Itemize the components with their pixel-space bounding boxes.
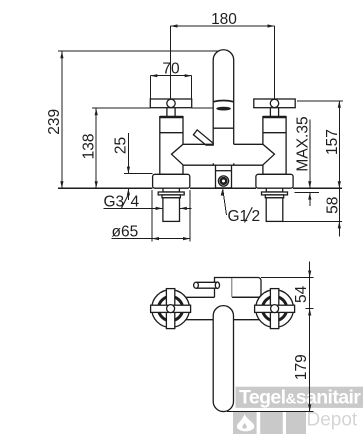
outlet fitting circles: [218, 176, 228, 186]
right handle hub circle: [270, 99, 278, 107]
arrow G1/2 leader: [221, 189, 224, 196]
svg-text:70: 70: [162, 61, 180, 78]
dim 25 extension line: [124, 173, 153, 175]
arrow MAX35 lower: [308, 193, 311, 200]
arrow 180 left: [171, 24, 178, 27]
MAX.35 dim line: [309, 120, 311, 207]
svg-text:239: 239: [46, 109, 63, 135]
dim 70 extension lines: [150, 76, 191, 99]
arrowheads: [60, 24, 341, 240]
body bar top line: [183, 143, 263, 145]
diverter lever: [193, 130, 213, 145]
G3/4 leader line: [104, 207, 192, 209]
diverter housing block B: [232, 278, 261, 298]
dim 180 extension lines: [171, 26, 275, 99]
dim 138 line: [95, 108, 97, 188]
right valve body: [263, 117, 286, 175]
arrow dia65 right: [183, 237, 190, 240]
lever joint ring: [215, 282, 219, 288]
left cross handle arms: [166, 289, 174, 329]
left valve body internal line: [160, 132, 183, 134]
left rosette dark ring: [159, 297, 183, 321]
dim 157 58 line: [338, 101, 340, 237]
arrow MAX35 upper: [308, 181, 311, 188]
spout ring arc: [214, 101, 234, 102]
G3/4 slash: [122, 193, 130, 208]
left handle center circle: [167, 305, 175, 313]
right rosette outer circle: [256, 290, 294, 328]
body bar hidden tube stubs: [213, 163, 234, 165]
left valve body: [160, 117, 183, 175]
arrow 180 right: [268, 24, 275, 27]
left locknut: [162, 195, 180, 198]
arrow 239 bottom: [60, 181, 63, 188]
arrow dia65 left: [152, 237, 159, 240]
right washer plate small: [266, 188, 282, 192]
arrow G3/4: [156, 207, 163, 210]
arrow G3/4 right: [180, 207, 187, 210]
arrow 157 bottom: [338, 181, 341, 188]
arrow 157 top: [338, 101, 341, 108]
deck mounting line: [58, 187, 342, 189]
right handle center circle: [271, 305, 279, 313]
body bar top line: [185, 296, 260, 298]
lever left cap: [194, 282, 199, 288]
arrow 70 right: [185, 74, 192, 77]
svg-text:54: 54: [293, 285, 310, 303]
arrow 54 top: [308, 271, 311, 278]
hanging spout stadium: [213, 306, 233, 412]
spout column: [213, 50, 234, 145]
body bar bottom line: [183, 164, 263, 166]
arrow 239 top: [60, 51, 63, 58]
dim 25 line: [127, 133, 129, 200]
dim 138 extension line: [92, 107, 213, 109]
arrow 179 bottom: [308, 404, 311, 411]
arrow 25 upper: [127, 167, 130, 174]
right locknut: [265, 195, 283, 198]
arrow 25 lower: [127, 188, 130, 195]
left valve body top thick edge: [160, 116, 183, 118]
svg-text:4: 4: [131, 193, 140, 210]
dim 157 top extension line: [297, 100, 343, 102]
dia 65 dim line: [112, 238, 191, 240]
right rosette dark ring: [263, 297, 287, 321]
dim 70 line: [150, 75, 191, 77]
spout dark ring: [216, 107, 231, 111]
left threaded shank: [163, 198, 180, 222]
right handle crossbar: [254, 99, 295, 108]
dim 239 line: [61, 51, 63, 188]
dim 239 top extension line: [58, 50, 218, 52]
MAX.35 lower extension line: [295, 192, 319, 194]
right washer plate wide: [262, 192, 288, 195]
body bar bottom line: [185, 319, 260, 321]
handle center extension tick: [305, 308, 313, 310]
top extension line body: [261, 277, 313, 279]
watermark banner: [236, 387, 363, 409]
right cross handle arms: [270, 289, 278, 329]
svg-text:ø65: ø65: [112, 224, 139, 241]
diverter housing block A: [215, 278, 233, 298]
svg-text:157: 157: [324, 129, 341, 155]
left washer plate wide: [158, 192, 184, 195]
G1/2 slash: [245, 207, 253, 222]
left rosette outer circle: [152, 290, 190, 328]
right base flange: [256, 174, 293, 188]
dimension texts: [46, 11, 342, 240]
watermark tiles: [233, 412, 306, 434]
watermark droplet: [237, 414, 254, 431]
arrow 54 bottom 179 top: [308, 309, 311, 316]
svg-text:Tegel&sanitair: Tegel&sanitair: [239, 387, 361, 409]
dim 180 line: [171, 25, 275, 27]
spout bottom extension line: [227, 411, 313, 413]
left handle crossbar: [150, 99, 191, 108]
left washer plate small: [163, 188, 179, 192]
dim 54 179 line: [309, 262, 311, 412]
diverter knob lever: [196, 282, 218, 288]
left handle stem: [167, 108, 175, 117]
left base flange: [153, 174, 190, 188]
dia 65 extension lines: [152, 190, 190, 241]
outlet fitting G1/2: [216, 165, 232, 188]
svg-text:Depot: Depot: [307, 410, 358, 431]
right valve body internal line: [263, 132, 286, 134]
arrow 58 bottom: [338, 221, 341, 228]
arrow 70 left: [150, 74, 157, 77]
spout joint line: [213, 127, 234, 129]
right threaded shank: [266, 198, 283, 222]
right handle stem: [270, 108, 278, 117]
dim 58 bottom extension line: [283, 220, 342, 222]
svg-text:138: 138: [80, 133, 97, 159]
svg-text:58: 58: [325, 197, 342, 214]
G1/2 leader line: [223, 190, 227, 216]
svg-text:180: 180: [211, 11, 237, 28]
svg-text:MAX.35: MAX.35: [295, 116, 312, 171]
outlet fitting internal line: [216, 170, 232, 172]
left handle hub circle: [167, 99, 175, 107]
svg-text:2: 2: [252, 208, 261, 225]
right valve body top thick edge: [263, 116, 286, 118]
arrow 138 bottom: [95, 181, 98, 188]
svg-text:25: 25: [113, 137, 130, 154]
arrow 138 top: [95, 108, 98, 115]
svg-text:179: 179: [293, 354, 310, 380]
